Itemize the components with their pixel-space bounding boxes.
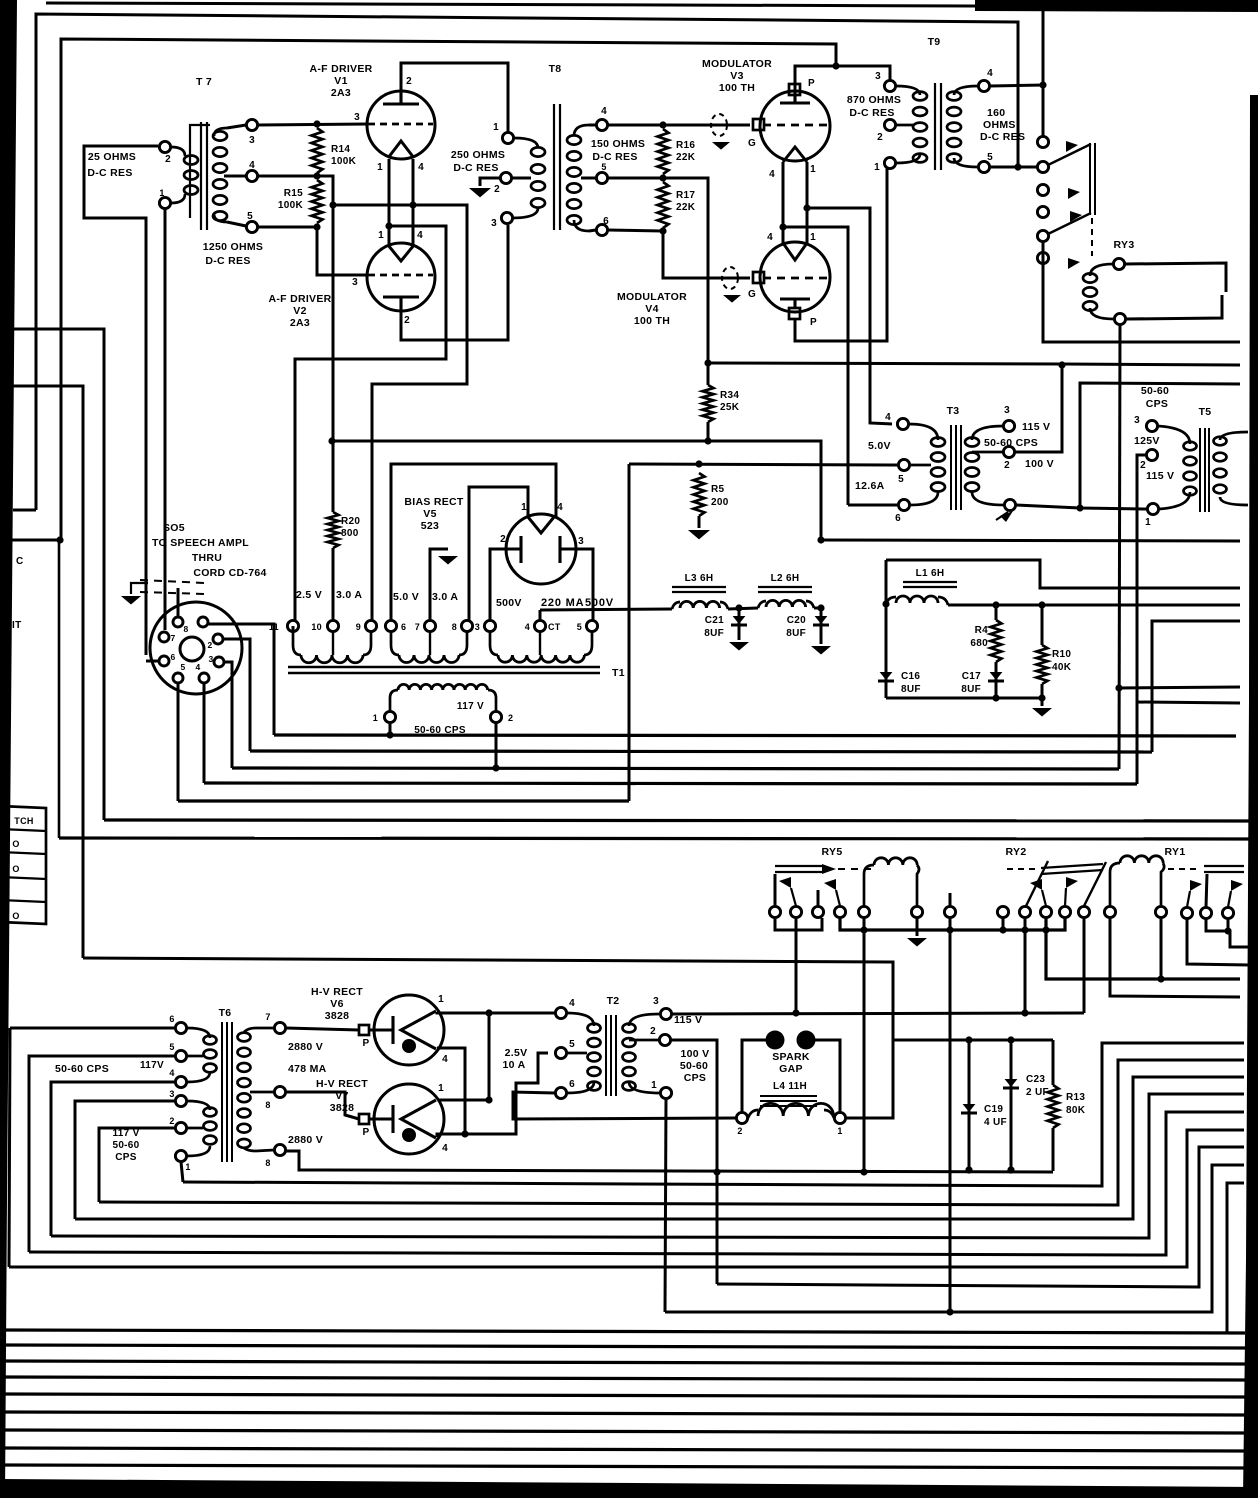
terminal T2-1	[660, 1087, 671, 1098]
terminal T6-8	[274, 1086, 285, 1097]
capacitor C17	[988, 680, 1004, 683]
svg-text:1: 1	[810, 164, 816, 175]
inductor L4 winding	[748, 1110, 758, 1118]
svg-text:5.0V: 5.0V	[868, 440, 891, 452]
terminal T1-4	[534, 620, 545, 631]
svg-text:V5: V5	[423, 508, 436, 520]
capacitor C21	[731, 624, 747, 627]
plate of V4	[780, 299, 810, 308]
ground below C21	[729, 642, 749, 651]
svg-text:T8: T8	[549, 63, 562, 75]
junction T3-2 line y365	[1058, 361, 1065, 368]
resistor R10	[1037, 645, 1048, 684]
junction R14/R15 and T7-4	[313, 172, 320, 179]
svg-text:6: 6	[401, 622, 406, 632]
wire T3-bottom to T5-1	[1016, 505, 1147, 509]
svg-text:200: 200	[711, 497, 729, 508]
relay RY1 armature stem	[1206, 874, 1207, 907]
terminal T9-2	[884, 119, 895, 130]
wire H5 to right edge	[1119, 687, 1240, 688]
svg-text:G: G	[748, 138, 756, 149]
relay RY2 contact3 drop to y979	[1046, 918, 1240, 979]
terminal T2-2	[659, 1034, 670, 1045]
wire T3-6 left leg	[848, 504, 898, 507]
wire T7-4 to junction	[258, 176, 333, 440]
winding T1 primary	[398, 684, 488, 690]
junction RY2 contact2 on 115V line	[1021, 1009, 1028, 1016]
winding T5 primary	[1184, 442, 1197, 451]
junction rail RY2 contact1	[999, 926, 1006, 933]
wire R15 bottom to V2 grid	[317, 227, 368, 275]
relay RY2 contact1 drop	[1002, 918, 1005, 930]
wire C21 to ground	[738, 608, 741, 640]
feedthrough at V3 grid (dashed)	[711, 114, 727, 136]
rail A2	[183, 1043, 1244, 1186]
svg-text:50-60: 50-60	[1141, 385, 1169, 397]
svg-text:3: 3	[653, 996, 659, 1007]
svg-text:4: 4	[885, 412, 891, 423]
svg-text:V6: V6	[330, 998, 343, 1010]
wire SO5 pin4 to bus4	[203, 684, 206, 783]
svg-text:6: 6	[895, 513, 901, 524]
bus line 7 run	[59, 838, 1250, 839]
junction V7 pin1 riser	[485, 1096, 492, 1103]
svg-text:25K: 25K	[720, 402, 740, 413]
svg-text:P: P	[808, 78, 815, 89]
wire T1-CT up to filter	[539, 610, 542, 620]
svg-text:BIAS RECT: BIAS RECT	[404, 496, 464, 508]
plate of V7	[359, 1114, 369, 1124]
svg-text:10 A: 10 A	[503, 1059, 526, 1071]
switch bar (double line)	[1089, 143, 1091, 215]
relay RY5 linkage dashes	[838, 868, 874, 870]
winding T2 primary	[588, 1024, 601, 1033]
terminal RY3 top	[1113, 258, 1124, 269]
feedthrough at V4 grid (dashed)	[722, 267, 738, 289]
svg-text:100 V: 100 V	[1025, 458, 1054, 470]
svg-text:2: 2	[650, 1026, 656, 1037]
winding T6 secondary	[238, 1033, 251, 1042]
wire R5 to ground	[698, 516, 701, 528]
wire SO5 pin8 stub	[177, 588, 180, 616]
ground below C20	[811, 646, 831, 655]
svg-text:T2: T2	[607, 995, 620, 1007]
svg-text:4: 4	[195, 662, 200, 672]
filament of V6	[401, 1011, 436, 1049]
plate 2 of V5	[519, 536, 522, 563]
winding T7 secondary coil	[213, 131, 227, 140]
relay RY2 armature bar	[1041, 864, 1103, 868]
tube V7 envelope	[374, 1084, 444, 1154]
terminal T6-5	[175, 1050, 186, 1061]
wire filament to T1-11 route	[295, 226, 446, 626]
wire switch riser from top edge	[1042, 11, 1045, 142]
svg-text:117 V: 117 V	[112, 1128, 139, 1139]
terminal T5-1	[1147, 503, 1158, 514]
svg-text:4: 4	[249, 160, 255, 171]
wire V7 pin4 to join	[437, 1134, 465, 1137]
svg-text:50-60 CPS: 50-60 CPS	[55, 1063, 109, 1075]
svg-text:4: 4	[557, 502, 563, 513]
svg-text:A-F DRIVER: A-F DRIVER	[268, 293, 331, 305]
junction line-B edge stub	[56, 536, 63, 543]
svg-text:1: 1	[1145, 517, 1151, 528]
winding T1 2.5V	[293, 632, 301, 655]
svg-text:3: 3	[1134, 415, 1140, 426]
svg-text:12.6A: 12.6A	[855, 480, 885, 492]
wire T8-5 tap lead	[581, 177, 596, 180]
core T1 (double bars)	[288, 666, 600, 669]
switch flag contact a	[1066, 141, 1078, 152]
svg-text:6: 6	[603, 216, 609, 227]
wire V2 plate to T8-3	[401, 225, 508, 340]
terminal T5-2	[1146, 449, 1157, 460]
winding T8 secondary coil	[567, 135, 581, 144]
capacitor C23	[1003, 1087, 1019, 1090]
svg-text:GAP: GAP	[779, 1063, 803, 1075]
wire T5-2 riser down	[1137, 455, 1146, 702]
svg-text:RY1: RY1	[1165, 846, 1186, 858]
junction C19 bottom	[965, 1166, 972, 1173]
svg-text:3: 3	[249, 135, 255, 146]
wire C19 chain	[968, 1040, 971, 1170]
wire T9-5 to switch	[990, 166, 1043, 169]
junction C17 bottom	[992, 694, 999, 701]
inductor L2	[758, 601, 766, 608]
junction filament feed b	[779, 223, 786, 230]
svg-text:T1: T1	[612, 667, 625, 679]
rail A9	[665, 1311, 700, 1314]
svg-text:1: 1	[874, 162, 880, 173]
wire RY3 top to right edge	[1125, 263, 1226, 292]
bus4 right riser	[1136, 702, 1139, 784]
svg-text:H-V RECT: H-V RECT	[311, 986, 363, 998]
filament of V4	[783, 243, 807, 260]
switch flag contact d	[1070, 211, 1082, 222]
inductor L4 core bars	[760, 1095, 817, 1097]
svg-text:1: 1	[378, 230, 384, 241]
socket SO5 pin 8	[173, 617, 183, 627]
wire R17 bottom down to V4 grid line	[663, 231, 750, 278]
socket SO5 pin 1	[198, 617, 208, 627]
bottom bus line B6	[2, 1412, 1245, 1415]
svg-text:CPS: CPS	[684, 1072, 707, 1084]
svg-text:50-60: 50-60	[112, 1140, 139, 1151]
resistor R13	[1048, 1085, 1059, 1128]
wire L1 output line H2	[948, 604, 1240, 607]
svg-text:4: 4	[987, 68, 993, 79]
wire line-B top run to V3 plate	[61, 39, 836, 540]
wire line-A vertical	[36, 14, 1018, 510]
svg-text:6: 6	[169, 1014, 174, 1024]
relay RY5 left rail	[775, 918, 822, 930]
terminal T8-5	[596, 172, 607, 183]
junction T7-4 bias tee	[329, 201, 336, 208]
core T9 line 1	[934, 83, 936, 170]
relay RY5 coil right leg ground	[916, 918, 919, 936]
relay RY2 contact2 drop	[1024, 918, 1027, 1013]
wire T2-2 down to A1	[671, 1040, 717, 1284]
wire H4 from T5-2 riser	[1137, 702, 1240, 703]
terminal T2-4	[555, 1007, 566, 1018]
core T8 line 2	[559, 104, 561, 230]
relay RY2 linkage dashes left	[1007, 868, 1038, 870]
svg-text:2: 2	[500, 534, 506, 545]
relay RY5 coil leg drop	[863, 918, 866, 1171]
terminal L4-2	[736, 1112, 747, 1123]
wire V7 pin1 to riser	[438, 1099, 489, 1102]
svg-text:D-C RES: D-C RES	[453, 162, 498, 174]
wire T1-7 to ground stub	[430, 549, 448, 620]
svg-text:4: 4	[569, 998, 575, 1009]
relay RY5 contact 5	[858, 906, 869, 917]
svg-text:3.0 A: 3.0 A	[336, 589, 362, 601]
wire T8-2 coil tap	[512, 177, 531, 180]
cable shield dashes	[140, 580, 205, 583]
svg-text:4: 4	[442, 1143, 448, 1154]
terminal T8-2	[500, 172, 511, 183]
terminal T1-p2	[490, 711, 501, 722]
relay RY2 coil left terminal	[1104, 906, 1115, 917]
svg-text:2: 2	[877, 132, 883, 143]
rail A1	[323, 1170, 1053, 1172]
wire T6-7 to V6 plate	[286, 1028, 359, 1030]
wire T1-p1 to bus1	[389, 723, 392, 735]
svg-text:P: P	[810, 317, 817, 328]
ground at T1-7 stub	[438, 556, 458, 565]
wire spark gap left side	[742, 1040, 766, 1112]
wire T7-3 lead	[227, 125, 246, 128]
svg-text:8UF: 8UF	[901, 684, 921, 695]
heater of V2	[388, 245, 414, 261]
svg-text:R13: R13	[1066, 1092, 1085, 1103]
svg-text:A-F DRIVER: A-F DRIVER	[309, 63, 372, 75]
ground at RY5 coil	[907, 938, 927, 947]
relay RY1 armature bar	[1204, 865, 1244, 867]
wire x630 long riser	[628, 464, 631, 801]
core T8 line 1	[553, 104, 555, 230]
wire V5 pin1 to T1-8	[469, 487, 528, 620]
svg-text:C17: C17	[962, 671, 981, 682]
svg-text:2: 2	[406, 76, 412, 87]
svg-text:1: 1	[373, 713, 378, 723]
svg-text:V1: V1	[334, 75, 347, 87]
svg-text:3: 3	[208, 654, 213, 664]
svg-text:C: C	[16, 556, 24, 567]
page top-right edge bar	[975, 0, 1258, 12]
junction R10 top	[1038, 601, 1045, 608]
svg-text:3: 3	[578, 536, 584, 547]
bottom bus line B4	[2, 1377, 1245, 1380]
junction C23 top	[1007, 1036, 1014, 1043]
relay RY5 contact6 drop	[949, 918, 952, 1312]
junction rail contact6	[946, 926, 953, 933]
relay RY5 flag contact 2	[791, 888, 796, 906]
inductor L1	[886, 597, 896, 604]
svg-text:4: 4	[601, 106, 607, 117]
svg-text:R5: R5	[711, 484, 725, 495]
inductor L2 core bars	[758, 586, 812, 588]
junction filter output	[817, 604, 824, 611]
svg-text:D-C RES: D-C RES	[980, 131, 1025, 143]
terminal T3-3	[1003, 420, 1014, 431]
svg-text:4: 4	[767, 232, 773, 243]
winding T6 primary 1	[204, 1036, 217, 1045]
relay RY2 coil right leg drop	[1160, 918, 1163, 979]
relay RY2 contact 2	[1019, 906, 1030, 917]
inductor L3	[672, 602, 680, 609]
plate of V6	[359, 1025, 369, 1035]
spark gap ball 2	[797, 1031, 816, 1050]
svg-text:R17: R17	[676, 190, 695, 201]
capacitor C16	[878, 680, 894, 683]
relay RY5 contact 6	[944, 906, 955, 917]
svg-text:1: 1	[493, 122, 499, 133]
terminal T1-7	[424, 620, 435, 631]
tube V5 envelope	[506, 514, 576, 584]
svg-text:THRU: THRU	[192, 552, 222, 564]
wire T6-6 to left edge	[10, 1027, 174, 1030]
svg-text:3: 3	[354, 112, 360, 123]
terminal L4-1	[834, 1112, 845, 1123]
relay RY2 flag contact 3	[1042, 890, 1046, 906]
terminal T7-3	[246, 119, 257, 130]
wire R4 bottom to C17	[995, 662, 998, 698]
wire RY3 bottom to right edge	[1126, 295, 1222, 319]
svg-text:P: P	[363, 1038, 370, 1049]
svg-text:R16: R16	[676, 140, 695, 151]
tube V4 envelope	[760, 242, 830, 312]
wire switch contact e down and right	[1043, 242, 1240, 342]
svg-text:22K: 22K	[676, 202, 696, 213]
svg-text:100 TH: 100 TH	[719, 82, 755, 94]
terminal T6-4	[175, 1076, 186, 1087]
grid of V2 (dashed)	[368, 274, 433, 277]
relay RY1 contact2 drop jog	[1206, 919, 1250, 947]
junction A9 RY5 contact6 leg	[946, 1308, 953, 1315]
terminal T8-1	[502, 132, 513, 143]
terminal T6-9	[274, 1144, 285, 1155]
wire T7 primary loop from terminal 2	[84, 146, 158, 655]
wire T7-3 to V1 grid	[258, 124, 368, 125]
junction C19 top	[965, 1036, 972, 1043]
core T6	[221, 1022, 223, 1162]
svg-text:D-C RES: D-C RES	[87, 167, 132, 179]
wire bias tee to filament riser	[333, 205, 467, 626]
tube V1 envelope	[367, 91, 435, 159]
core T7 line 1	[200, 122, 202, 230]
wire T1-p2 to bus3	[495, 723, 498, 768]
terminal T3-4	[897, 418, 908, 429]
svg-text:V2: V2	[293, 305, 306, 317]
svg-text:117 V: 117 V	[457, 701, 484, 712]
switch linkage dashed to RY3	[1091, 218, 1093, 256]
svg-text:MODULATOR: MODULATOR	[617, 291, 687, 303]
junction A1 RY5 leg	[860, 1168, 867, 1175]
terminal T8-3	[501, 212, 512, 223]
junction R34 top	[704, 359, 711, 366]
plate of V3	[780, 92, 810, 103]
relay RY2 contact 5	[1078, 906, 1089, 917]
junction rail RY2 contact3	[1042, 926, 1049, 933]
wire bias line y441	[332, 441, 821, 540]
svg-text:1: 1	[810, 232, 816, 243]
terminal T6-2	[175, 1122, 186, 1133]
socket SO5 pin 4	[199, 673, 209, 683]
core T5	[1199, 428, 1201, 512]
junction T9-5 line-A riser	[1014, 163, 1021, 170]
svg-text:680: 680	[970, 638, 988, 649]
ground at T8-2	[469, 188, 491, 197]
svg-text:1: 1	[651, 1080, 657, 1091]
wire C23 chain	[1010, 1040, 1013, 1170]
junction line-B at V3 plate	[832, 62, 839, 69]
svg-text:L1 6H: L1 6H	[916, 568, 945, 579]
bus line 3	[232, 768, 1119, 769]
wire R34 bottom lead	[707, 422, 710, 441]
switch contact b	[1037, 161, 1048, 172]
svg-text:CPS: CPS	[115, 1152, 136, 1163]
terminal T7-2	[159, 141, 170, 152]
wire 5V line y464 segment V5	[391, 463, 556, 466]
winding T2 secondary	[623, 1024, 636, 1033]
winding T8 primary coil	[531, 147, 545, 156]
junction R15 bottom to T7-5	[313, 223, 320, 230]
svg-text:CPS: CPS	[1146, 398, 1169, 410]
junction filament riser 4	[409, 201, 416, 208]
terminal T3-2	[1003, 446, 1014, 457]
svg-text:125V: 125V	[1134, 435, 1160, 447]
relay RY2 coil left leg drop to y997 line	[1110, 918, 1240, 997]
svg-text:1: 1	[185, 1162, 190, 1172]
svg-text:5: 5	[169, 1042, 174, 1052]
page left edge bar	[0, 0, 17, 1498]
wire T8-4 lead	[589, 124, 596, 127]
bottom bus line B1	[2, 1330, 1245, 1333]
terminal T1-p1	[384, 711, 395, 722]
terminal T6-6	[175, 1022, 186, 1033]
svg-text:3: 3	[875, 71, 881, 82]
relay RY2 flag contact 4	[1065, 888, 1066, 906]
wire V5 plate3 to T1-5	[560, 549, 593, 620]
svg-text:5: 5	[569, 1039, 575, 1050]
relay RY5 coil terminal right	[911, 906, 922, 917]
wire R10 top lead	[1041, 605, 1044, 645]
svg-text:40K: 40K	[1052, 662, 1072, 673]
svg-text:8: 8	[265, 1100, 270, 1110]
junction T9-4 switch riser	[1039, 81, 1046, 88]
wire T6-6 left end down	[9, 1028, 10, 1267]
wire R10 bottom lead	[1041, 684, 1044, 706]
relay RY1 contact 3	[1222, 907, 1233, 918]
svg-text:D-C RES: D-C RES	[592, 151, 637, 163]
wire T8-4 to V3 grid	[608, 124, 750, 127]
svg-text:8: 8	[183, 624, 188, 634]
bus line 7	[58, 540, 61, 838]
svg-text:C21: C21	[705, 615, 724, 626]
wire line y465 to T3-5	[629, 464, 898, 465]
relay RY1 linkage dashes	[1168, 868, 1199, 870]
terminal T8-4	[596, 119, 607, 130]
svg-text:R20: R20	[341, 516, 360, 527]
relay RY2 contact 3	[1040, 906, 1051, 917]
svg-text:RY5: RY5	[822, 846, 843, 858]
switch contact d	[1037, 206, 1048, 217]
wire L3 to C21 node	[728, 608, 758, 609]
svg-text:800: 800	[341, 528, 359, 539]
wire L4-1 to riser	[846, 1040, 893, 1118]
wire T2-1 down	[665, 1099, 666, 1312]
